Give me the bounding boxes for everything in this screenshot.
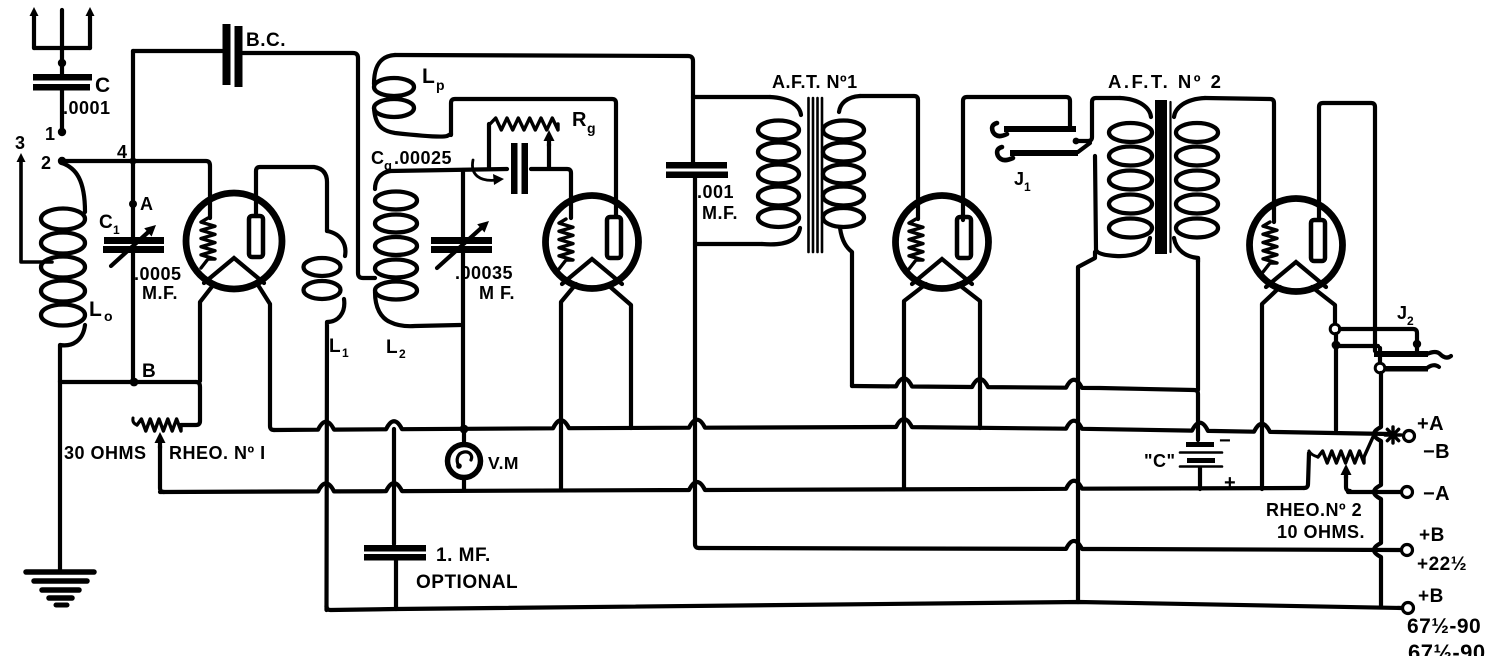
wire: AFT1 secondary top to V3 grid xyxy=(860,96,918,219)
wire: V2 right filament leg xyxy=(608,285,631,428)
triode V1 xyxy=(186,193,282,289)
label Lo xyxy=(89,298,113,324)
wire: C1 to node B xyxy=(131,252,135,382)
svg-text:B.C.: B.C. xyxy=(246,30,286,51)
svg-text:L: L xyxy=(386,337,398,358)
wire: V3 left filament leg xyxy=(904,284,926,489)
capacitor C xyxy=(33,74,92,91)
wire: grid return bus xyxy=(852,378,1198,440)
wire: node B horizontal xyxy=(60,380,196,384)
svg-text:A.F.T. Nº1: A.F.T. Nº1 xyxy=(772,72,858,92)
Rg wiper arrow xyxy=(544,130,555,168)
label .0001 xyxy=(63,98,111,118)
label Lp xyxy=(422,65,445,93)
wire: J2 to +B 67 bus xyxy=(1374,373,1381,606)
label +A xyxy=(1417,413,1444,435)
jack J1 xyxy=(992,123,1078,160)
wire: V4 left filament leg xyxy=(1262,287,1280,489)
wire: J2 sleeve to +A bus xyxy=(1334,334,1338,430)
svg-text:RHEO. Nº I: RHEO. Nº I xyxy=(169,443,266,463)
wire: Lp bottom riser to V2 plate xyxy=(451,99,616,216)
label +B 67 xyxy=(1407,586,1481,638)
voltmeter V.M xyxy=(448,445,481,478)
label J2 xyxy=(1397,303,1414,328)
svg-text:C: C xyxy=(95,74,111,97)
svg-text:−B: −B xyxy=(1423,441,1450,463)
wire: 1MF riser xyxy=(392,429,396,544)
svg-text:L: L xyxy=(89,298,102,321)
svg-text:C: C xyxy=(99,212,113,233)
capacitor Cg xyxy=(511,143,528,194)
svg-text:+22½: +22½ xyxy=(1417,554,1467,575)
antenna xyxy=(30,7,95,62)
svg-text:4: 4 xyxy=(117,142,128,162)
wire: -A bus xyxy=(160,481,1304,492)
terminal 1 xyxy=(45,124,66,144)
label .00035 MF xyxy=(455,263,515,303)
svg-text:R: R xyxy=(572,109,587,131)
wire: AFT2 secondary bottom lead xyxy=(1196,258,1200,390)
label C xyxy=(95,74,111,97)
terminal +B 67 xyxy=(1403,603,1414,614)
capacitor B.C. xyxy=(223,24,243,87)
wire: coil Lo to ground xyxy=(58,381,62,570)
wire: +A filament bus xyxy=(274,419,1389,434)
label -B xyxy=(1423,441,1450,463)
coil Lp xyxy=(374,55,451,137)
wire: .001 bottom to +B22 bus xyxy=(695,178,699,548)
label -A xyxy=(1423,483,1450,505)
svg-text:g: g xyxy=(587,120,596,136)
triode V4 xyxy=(1250,199,1343,292)
node A xyxy=(129,194,154,214)
svg-text:2: 2 xyxy=(399,347,406,361)
svg-text:.001: .001 xyxy=(697,182,734,202)
svg-text:.0001: .0001 xyxy=(63,98,111,118)
label battery minus xyxy=(1219,430,1231,452)
label J1 xyxy=(1014,169,1031,194)
label A.F.T. No2 xyxy=(1108,71,1223,92)
node B xyxy=(130,361,157,386)
wire: AFT2 primary bottom to +B bus xyxy=(1078,252,1095,602)
svg-text:3: 3 xyxy=(15,133,26,153)
triode V2 xyxy=(546,196,639,289)
svg-text:1. MF.: 1. MF. xyxy=(436,545,491,566)
wire: node B down to rheostat 1 xyxy=(181,382,200,425)
terminal +B 22 xyxy=(1402,545,1413,556)
wire: 1MF to +B bus xyxy=(394,557,398,609)
label 1.MF xyxy=(436,545,491,566)
node: V.M top junction xyxy=(460,425,469,434)
label .001 MF xyxy=(697,182,738,223)
coil L1 xyxy=(304,231,346,610)
node: antenna junction xyxy=(58,59,66,67)
label 30 OHMS xyxy=(64,443,147,463)
svg-text:L: L xyxy=(329,336,341,357)
wire: V.M bottom lead xyxy=(462,477,466,490)
label "C" xyxy=(1144,451,1176,471)
label 3 xyxy=(15,133,26,153)
resistor Rg xyxy=(490,118,558,130)
wire: V1 plate lead xyxy=(256,167,327,231)
svg-text:M.F.: M.F. xyxy=(142,283,178,303)
svg-text:J: J xyxy=(1397,303,1408,323)
battery C xyxy=(1180,442,1222,467)
node 4 xyxy=(117,142,137,165)
svg-text:30 OHMS: 30 OHMS xyxy=(64,443,147,463)
svg-text:−A: −A xyxy=(1423,483,1450,505)
label 10 OHMS xyxy=(1277,522,1365,542)
transformer AFT1 xyxy=(758,96,864,386)
svg-text:p: p xyxy=(436,77,445,93)
capacitor .001 xyxy=(666,162,728,178)
svg-text:2: 2 xyxy=(1407,314,1414,328)
wire: J2 frame link xyxy=(1340,346,1380,362)
wire: J2 sleeve strap xyxy=(1340,329,1421,351)
wire: V3 right filament leg xyxy=(958,284,980,428)
svg-text:OPTIONAL: OPTIONAL xyxy=(416,572,518,593)
terminal 3 tap wire xyxy=(17,153,53,262)
rheostat 1 wiper arrow xyxy=(155,432,166,492)
svg-text:+: + xyxy=(1224,472,1236,494)
wire: V2 left filament leg xyxy=(561,284,576,489)
svg-text:M.F.: M.F. xyxy=(702,203,738,223)
wire: B.C. right lead to L2 tap xyxy=(243,53,375,278)
svg-text:.0005: .0005 xyxy=(134,264,182,284)
wire: B.C. left lead xyxy=(133,49,222,53)
coil Lo xyxy=(41,163,85,381)
jack J2 sleeve circle xyxy=(1330,324,1340,334)
wire: antenna to capacitor C xyxy=(60,63,64,75)
wire: L2 top to Cg xyxy=(390,169,507,171)
terminal 2 xyxy=(41,153,66,173)
label Cg.00025 xyxy=(371,148,452,173)
wire: Rg left lead xyxy=(487,124,491,168)
label C1 xyxy=(99,212,120,237)
wire: node 4 up to B.C. xyxy=(131,51,135,161)
capacitor 1MF xyxy=(364,545,426,561)
label OPTIONAL xyxy=(416,572,518,593)
capacitor .00035 xyxy=(431,221,492,268)
label Rg xyxy=(572,109,596,136)
rheostat 2 wiper arrow xyxy=(1341,464,1402,492)
svg-text:+A: +A xyxy=(1417,413,1444,435)
svg-text:1: 1 xyxy=(1024,180,1031,194)
node: bus junction V1 xyxy=(0,0,1,1)
svg-text:67½-90: 67½-90 xyxy=(1407,615,1481,638)
wire: AFT2 secondary top to V4 grid xyxy=(1205,98,1274,222)
svg-text:C: C xyxy=(371,148,385,168)
label A.F.T. No1 xyxy=(772,72,858,92)
svg-text:J: J xyxy=(1014,169,1025,189)
terminal +A -B xyxy=(1404,431,1415,442)
label battery plus xyxy=(1224,472,1236,494)
svg-text:"C": "C" xyxy=(1144,451,1176,471)
wire: C battery to -A bus xyxy=(1198,468,1202,489)
label L1 xyxy=(329,336,349,360)
svg-text:67½-90: 67½-90 xyxy=(1408,640,1486,656)
svg-text:.00025: .00025 xyxy=(394,148,452,168)
transformer AFT2 xyxy=(1095,98,1218,262)
wire: Cg right to V2 grid xyxy=(531,169,571,218)
wire: capacitor C to terminal 1 xyxy=(60,90,64,131)
label cutoff bottom xyxy=(1408,640,1486,656)
wire: V4 right filament leg xyxy=(1312,287,1335,324)
svg-text:1: 1 xyxy=(342,346,349,360)
wire: terminal 2 to V1 grid xyxy=(62,161,210,218)
jack J2 tip circle xyxy=(1375,363,1385,373)
label RHEO No2 xyxy=(1266,500,1362,520)
label +B 22 xyxy=(1417,525,1467,575)
svg-text:A: A xyxy=(140,194,154,214)
wire: .001 to AFT1 primary top xyxy=(693,95,770,99)
svg-text:10 OHMS.: 10 OHMS. xyxy=(1277,522,1365,542)
ground xyxy=(26,572,94,605)
resistor RHEO No2 xyxy=(1309,437,1373,463)
node: V4 filament junction xyxy=(1332,341,1341,350)
wire: RHEO2 left end down xyxy=(1304,453,1309,488)
wire: +B 67 bus xyxy=(327,602,1403,610)
triode V3 xyxy=(896,196,989,289)
svg-text:1: 1 xyxy=(113,223,120,237)
label B.C. xyxy=(246,30,286,51)
wire: node 4 to capacitor C1 xyxy=(131,161,135,237)
label .0005 MF xyxy=(134,264,182,303)
wire: grid wire down to .00035 xyxy=(461,170,465,237)
capacitor C1 xyxy=(103,225,164,266)
wire: Lp top to AFT1/.001 xyxy=(395,55,693,163)
wire: .00035 to filament bus xyxy=(461,252,465,428)
label RHEO No1 xyxy=(169,443,266,463)
wire: V3 plate lead xyxy=(963,97,1070,220)
svg-text:B: B xyxy=(142,361,156,382)
terminal +A -B star xyxy=(1385,427,1401,443)
svg-text:2: 2 xyxy=(41,153,52,173)
resistor RHEO No1 xyxy=(133,418,181,431)
svg-text:V.M: V.M xyxy=(488,453,519,473)
svg-text:+B: +B xyxy=(1418,586,1444,607)
wire: AFT1 primary bottom lead xyxy=(695,242,762,246)
wire: V1 right filament leg xyxy=(258,285,274,430)
svg-text:+B: +B xyxy=(1419,525,1445,546)
wire: V1 left filament leg xyxy=(200,284,214,381)
coil L2 xyxy=(375,171,460,326)
wire: +B 22 bus xyxy=(699,541,1401,550)
wire: V.M top lead xyxy=(462,429,466,444)
jack J2 xyxy=(1374,351,1451,372)
wire: J1 lower contact to AFT2 primary top xyxy=(1073,98,1120,152)
wire: V4 plate lead xyxy=(1319,103,1375,351)
annotation arrow to Cg xyxy=(472,160,504,185)
label V.M xyxy=(488,453,519,473)
svg-text:L: L xyxy=(422,65,435,88)
terminal -A xyxy=(1402,487,1413,498)
svg-text:A.F.T. Nº 2: A.F.T. Nº 2 xyxy=(1108,71,1223,92)
svg-text:RHEO.Nº 2: RHEO.Nº 2 xyxy=(1266,500,1362,520)
svg-text:o: o xyxy=(104,308,113,324)
svg-text:1: 1 xyxy=(45,124,56,144)
svg-text:M F.: M F. xyxy=(479,283,515,303)
label L2 xyxy=(386,337,406,361)
